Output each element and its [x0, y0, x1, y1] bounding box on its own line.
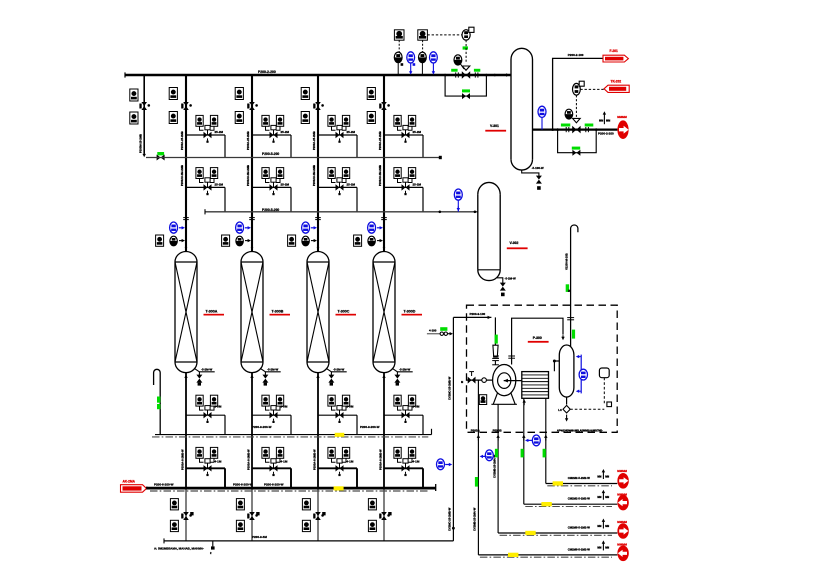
letdown station 2 of T-300B	[252, 168, 291, 212]
flange pair on riser T-300A	[183, 217, 189, 219]
svg-text:P200-6-200-W: P200-6-200-W	[154, 482, 174, 486]
svg-text:T-300B: T-300B	[272, 310, 284, 314]
packed column T-300B	[241, 252, 263, 373]
bypass loop of feed control valve	[445, 75, 486, 96]
local gauge below suction	[479, 395, 486, 405]
svg-text:CV2MC-25-2MB-W: CV2MC-25-2MB-W	[448, 376, 452, 400]
instrument TI riser T-300D	[367, 112, 375, 124]
svg-text:4-1M: 4-1M	[413, 460, 420, 464]
svg-text:MM: MM	[605, 525, 609, 528]
svg-text:9-3M: 9-3M	[215, 404, 222, 408]
packed column T-300D	[373, 252, 395, 373]
letdown station 1 of T-300A	[186, 115, 225, 157]
svg-text:CV2MB-25-2MA-W: CV2MB-25-2MA-W	[473, 507, 477, 531]
instrument PI riser T-300D	[367, 88, 375, 100]
svg-text:LC: LC	[558, 408, 562, 412]
pump discharge to reboiler feed drum	[512, 318, 563, 364]
svg-text:CM2M2-5-2M2-W: CM2M2-5-2M2-W	[568, 476, 591, 480]
plate heat exchanger	[522, 372, 549, 399]
svg-text:P200-5-200: P200-5-200	[262, 208, 279, 212]
svg-text:V-301: V-301	[490, 124, 499, 128]
bottoms letdown B of T-300D	[384, 447, 423, 488]
makeup line 4-100 into recirculation line	[427, 333, 440, 335]
svg-text:MMMM: MMMM	[617, 115, 627, 119]
bottoms block valves of T-300D	[368, 499, 391, 532]
instrument PIC (blue) at T-300D top	[368, 222, 376, 233]
svg-text:-5-2M-W: -5-2M-W	[505, 276, 517, 280]
svg-text:25-2M: 25-2M	[215, 183, 224, 187]
traced product line 2	[524, 503, 618, 505]
motor symbol (dashed link)	[599, 368, 609, 378]
svg-text:CM2M8-5-2M2-W: CM2M8-5-2M2-W	[568, 525, 591, 529]
flush header P200-9-3M	[164, 540, 453, 542]
svg-text:P200-6-200-W: P200-6-200-W	[233, 482, 253, 486]
drain line 3 from pump base	[497, 404, 499, 533]
instruments FI (blue) on feed header	[407, 52, 437, 75]
instrument PI riser T-300A	[169, 88, 177, 100]
feed riser to T-300D	[383, 75, 385, 252]
drain of T-300D	[392, 368, 413, 386]
svg-text:AK-2MA: AK-2MA	[123, 479, 136, 483]
svg-text:P200-9-100: P200-9-100	[470, 312, 486, 316]
V-301 overhead product line	[533, 128, 618, 130]
instrument TI at T-300C top	[288, 235, 296, 246]
exchanger vapor return to drum	[554, 361, 559, 371]
overhead control valve	[572, 118, 580, 133]
bottoms block valves of T-300A	[170, 499, 193, 532]
svg-text:4-1M: 4-1M	[281, 460, 288, 464]
vent gooseneck at battery limit	[154, 369, 161, 434]
instrument FI blue near line 2	[532, 435, 540, 446]
svg-text:9-3M: 9-3M	[413, 404, 420, 408]
recirculation down-leg to flush header	[452, 317, 454, 541]
svg-text:MM: MM	[606, 120, 610, 123]
V-301 drain	[522, 166, 544, 190]
header P200-5-200 lower	[205, 211, 478, 213]
svg-text:9-3M: 9-3M	[281, 404, 288, 408]
svg-text:P200-9-200-W: P200-9-200-W	[252, 425, 272, 429]
svg-text:25-2M: 25-2M	[281, 130, 290, 134]
letdown station 1 of T-300B	[252, 115, 291, 157]
vent gooseneck of package	[571, 225, 578, 347]
svg-text:P200M-25-2MB: P200M-25-2MB	[139, 134, 143, 153]
instrument TI on utility branch	[130, 112, 138, 124]
svg-text:MM: MM	[599, 120, 603, 123]
svg-text:P200-9-200-W: P200-9-200-W	[360, 425, 380, 429]
seal pot	[492, 345, 499, 360]
traced product line 4	[478, 554, 617, 556]
sample valve on header at utility outlet	[157, 155, 165, 161]
bottoms line of T-300D	[383, 373, 385, 489]
svg-text:4-100: 4-100	[429, 329, 437, 333]
instrument TI at T-300A top	[156, 235, 164, 246]
bottoms letdown B of T-300B	[252, 447, 291, 488]
instrument FI blue near line 4	[437, 459, 445, 470]
svg-text:MM: MM	[605, 547, 609, 550]
svg-text:CV2MC-25-2MB-W: CV2MC-25-2MB-W	[448, 507, 452, 531]
vessel V-301	[511, 48, 533, 170]
svg-text:25-2M: 25-2M	[413, 183, 422, 187]
bottoms letdown A of T-300B	[252, 395, 291, 434]
letdown station 2 of T-300D	[384, 168, 423, 212]
flange pairs at control valve	[455, 72, 457, 77]
svg-text:MM: MM	[605, 475, 609, 478]
block valve on riser T-300C	[313, 102, 324, 110]
svg-text:P200A-25-2MB: P200A-25-2MB	[246, 131, 250, 150]
svg-text:P200A-25-2MB: P200A-25-2MB	[180, 131, 184, 150]
letdown station 1 of T-300C	[318, 115, 357, 157]
package unit boundary (dashed)	[467, 305, 618, 432]
instrument on overhead control valve	[565, 109, 573, 119]
svg-text:V-302: V-302	[510, 241, 519, 245]
svg-text:P200A-6-2MB-W: P200A-6-2MB-W	[246, 449, 250, 470]
traced product line 1	[546, 483, 618, 485]
svg-text:T-300C: T-300C	[338, 310, 350, 314]
instrument TI riser T-300A	[169, 112, 177, 124]
instrument TI riser T-300C	[301, 112, 309, 124]
bottoms line of T-300B	[251, 373, 253, 489]
drain line 1 from exchanger	[545, 398, 547, 483]
bottoms letdown A of T-300C	[318, 395, 357, 434]
instrument PI on utility branch	[130, 89, 138, 101]
instrument PI (blue) on lower header	[454, 189, 462, 200]
svg-text:-5-100-W: -5-100-W	[532, 166, 544, 170]
instrument PIC (blue) at T-300C top	[302, 222, 310, 233]
svg-text:P200-9-3M: P200-9-3M	[252, 535, 267, 539]
svg-text:TK-202: TK-202	[611, 80, 622, 84]
main feed header P200-2-200	[125, 74, 511, 76]
flow arrow line 2	[602, 490, 605, 500]
instrument PIC (blue) at T-300B top	[236, 222, 244, 233]
svg-text:4-1M: 4-1M	[215, 460, 222, 464]
line P200-2-100 to F-201	[553, 58, 603, 129]
bottoms letdown B of T-300A	[186, 447, 225, 488]
flange pair on riser T-300B	[249, 217, 255, 219]
svg-text:F-201: F-201	[610, 49, 619, 53]
block valve on riser T-300B	[247, 102, 258, 110]
svg-text:25-2M: 25-2M	[347, 130, 356, 134]
packed column T-300A	[175, 252, 197, 373]
svg-text:-5-2M-W: -5-2M-W	[267, 368, 279, 372]
instrument PI riser T-300B	[235, 88, 243, 100]
product header P200-6-200-W	[146, 487, 436, 490]
svg-text:P200A8-2M-2MB: P200A8-2M-2MB	[312, 165, 316, 186]
bottoms line of T-300C	[317, 373, 319, 489]
svg-text:P200A-25-2MB: P200A-25-2MB	[312, 131, 316, 150]
feed riser to T-300A	[185, 75, 187, 252]
green tags at overhead valve	[561, 124, 570, 127]
utility branch line at left	[143, 75, 145, 154]
instrument FI blue near line 3	[485, 450, 493, 461]
svg-text:P200A-6-2MB-W: P200A-6-2MB-W	[378, 449, 382, 470]
svg-text:MM: MM	[597, 525, 601, 528]
svg-text:-5-2M-W: -5-2M-W	[333, 368, 345, 372]
instrument TI riser T-300B	[235, 112, 243, 124]
svg-text:25-2M: 25-2M	[215, 130, 224, 134]
green tags on drain lines	[475, 477, 478, 487]
letdown station 2 of T-300C	[318, 168, 357, 212]
svg-text:P200-6-200-W: P200-6-200-W	[264, 482, 284, 486]
svg-text:MM: MM	[597, 496, 601, 499]
flange pair on riser T-300D	[381, 217, 387, 219]
steam trace tag (yellow)	[334, 486, 344, 490]
green tags YMB at control valve	[451, 69, 457, 72]
bottoms letdown B of T-300C	[318, 447, 357, 488]
pump suction line from package boundary	[453, 316, 491, 318]
overhead valve bypass	[558, 130, 597, 153]
svg-text:P200A8-2M-2MB: P200A8-2M-2MB	[246, 165, 250, 186]
svg-text:MM: MM	[597, 547, 601, 550]
drum bottom level valve LC	[566, 397, 568, 404]
svg-text:25-2M: 25-2M	[281, 183, 290, 187]
svg-text:A: 5M2MB5AMA, MAHAB, MAHMA-: A: 5M2MB5AMA, MAHAB, MAHMA-	[154, 546, 204, 550]
svg-text:P200-5-200: P200-5-200	[262, 152, 279, 156]
svg-text:-5-2M-W: -5-2M-W	[399, 368, 411, 372]
header P200-5-200 upper	[146, 157, 440, 159]
svg-text:4-1M: 4-1M	[347, 460, 354, 464]
flange pair on riser T-300C	[315, 217, 321, 219]
pump P-300	[491, 365, 521, 405]
label YMB green on utility branch	[157, 152, 164, 155]
traced header P200-9-200-W	[155, 434, 432, 436]
svg-text:P50BB: P50BB	[493, 428, 502, 432]
flow direction arrow to battery limit	[603, 111, 606, 124]
bottoms letdown A of T-300D	[384, 395, 423, 434]
flow arrow line 1	[602, 469, 605, 479]
pressure controller PIC-200	[427, 27, 474, 40]
svg-text:MM: MM	[597, 475, 601, 478]
V-302 drain	[497, 276, 516, 296]
svg-text:T-300D: T-300D	[404, 310, 416, 314]
svg-text:V1200-M-10B: V1200-M-10B	[565, 253, 569, 270]
steam trace tag (yellow)	[335, 433, 345, 437]
flow arrow line 3	[602, 519, 605, 529]
svg-text:25-2M: 25-2M	[347, 183, 356, 187]
bottoms line of T-300A	[185, 373, 187, 489]
svg-text:P-300: P-300	[533, 336, 542, 340]
svg-text:T-300A: T-300A	[206, 310, 218, 314]
drain line 4 from suction	[477, 380, 479, 555]
drain of T-300A	[194, 368, 215, 386]
drain line 2 from exchanger	[523, 398, 525, 504]
svg-text:MMMM: MMMM	[617, 469, 627, 473]
signal to control valve (green tag)	[463, 46, 468, 49]
instrument PI riser T-300C	[301, 88, 309, 100]
manifold valve on utility branch	[139, 102, 150, 110]
instrument TI at T-300D top	[354, 235, 362, 246]
svg-text:P200A-25-2MB: P200A-25-2MB	[378, 131, 382, 150]
feed riser to T-300B	[251, 75, 253, 252]
pump suction from boundary with hand valve	[467, 379, 493, 381]
svg-text:P200-2-200: P200-2-200	[258, 70, 276, 74]
feed riser to T-300C	[317, 75, 319, 252]
svg-text:MM: MM	[605, 496, 609, 499]
drain of T-300C	[326, 368, 347, 386]
bottoms block valves of T-300C	[302, 499, 325, 532]
level gauge (blue) on drum	[576, 355, 588, 394]
svg-text:CM2M2-5-2M2-W: CM2M2-5-2M2-W	[568, 497, 591, 501]
instrument on valve yoke	[454, 55, 462, 65]
svg-text:9-3M: 9-3M	[347, 404, 354, 408]
bottoms block valves of T-300B	[236, 499, 259, 532]
drain of T-300B	[260, 368, 281, 386]
instrument PIC (blue) at T-300A top	[170, 222, 178, 233]
letdown station 2 of T-300A	[186, 168, 225, 212]
block valve on riser T-300D	[379, 102, 390, 110]
reboiler feed drum	[559, 345, 574, 397]
vessel V-302	[478, 182, 500, 280]
svg-text:P200A8-2M-2MB: P200A8-2M-2MB	[378, 165, 382, 186]
pump suction nozzle flanges	[492, 364, 499, 366]
flow arrow line 4	[602, 540, 605, 550]
svg-text:P200A8-2M-2MB: P200A8-2M-2MB	[180, 165, 184, 186]
level controller LIC with signal to TK-202	[573, 81, 585, 95]
junction at V-301 inlet	[493, 74, 496, 77]
svg-text:P200-2-200: P200-2-200	[598, 131, 614, 135]
svg-text:-5-2M-W: -5-2M-W	[201, 368, 213, 372]
svg-text:CM2M8-5-2M2-W: CM2M8-5-2M2-W	[568, 547, 591, 551]
block valve on riser T-300A	[181, 102, 192, 110]
battery-limit marker (red)	[617, 120, 628, 139]
packed column T-300C	[307, 252, 329, 373]
bottoms letdown A of T-300A	[186, 395, 225, 434]
svg-text:M: M	[567, 290, 571, 292]
instrument TI at T-300B top	[222, 235, 230, 246]
svg-text:P200-2-100: P200-2-100	[568, 53, 584, 57]
feed header control valve	[462, 66, 470, 79]
svg-text:P200A-6-2MB-W: P200A-6-2MB-W	[180, 449, 184, 470]
traced product line 3	[498, 532, 617, 534]
shared instruments on feed header	[394, 30, 427, 75]
svg-text:M: M	[461, 380, 463, 384]
svg-text:P200A-6-2MB-W: P200A-6-2MB-W	[312, 449, 316, 470]
svg-text:AP%1545%MAMB,A5MMBA&MB7M5-: AP%1545%MAMB,A5MMBA&MB7M5-	[557, 428, 603, 432]
instrument PI (blue) on overhead line	[538, 106, 546, 117]
letdown station 1 of T-300D	[384, 115, 423, 157]
svg-text:25-2M: 25-2M	[413, 130, 422, 134]
